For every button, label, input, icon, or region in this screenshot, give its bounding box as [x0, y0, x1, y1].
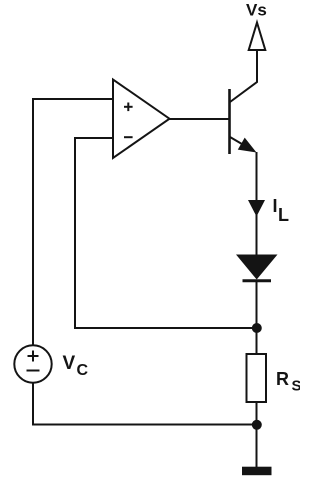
label Rs — [276, 369, 302, 395]
wire resistor to bottom node — [256, 402, 258, 425]
wire Vc to bottom node — [33, 383, 252, 425]
label Vc — [63, 353, 89, 379]
power supply arrow Vs — [249, 23, 266, 51]
node junction bottom — [252, 420, 262, 430]
wire diode to node — [256, 281, 258, 329]
wire op-amp minus input feedback — [75, 138, 252, 328]
svg-text:I: I — [273, 196, 278, 216]
wire op-amp output to base — [169, 118, 229, 120]
svg-text:R: R — [276, 369, 289, 389]
wire node to ground — [256, 425, 258, 467]
label IL — [273, 196, 290, 225]
wire collector to supply — [230, 50, 257, 102]
node junction feedback — [252, 323, 262, 333]
svg-text:Vs: Vs — [246, 1, 267, 20]
diode D1 — [236, 255, 278, 281]
voltage source Vc — [14, 345, 51, 382]
svg-text:S: S — [292, 378, 301, 395]
transistor Q1 — [230, 89, 257, 154]
svg-text:V: V — [63, 353, 76, 374]
ground — [242, 467, 272, 476]
current arrow IL — [248, 200, 265, 217]
wire node to resistor — [256, 328, 258, 354]
svg-text:C: C — [77, 362, 89, 379]
resistor Rs — [247, 354, 267, 402]
wire emitter rail — [256, 152, 258, 255]
svg-text:L: L — [278, 205, 289, 225]
wire op-amp plus input — [33, 99, 113, 346]
op-amp U1 — [113, 80, 170, 159]
